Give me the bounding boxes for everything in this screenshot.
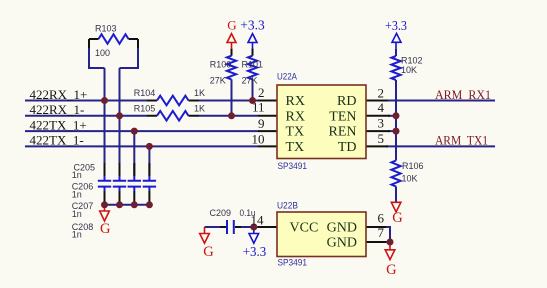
svg-text:1K: 1K bbox=[194, 104, 205, 114]
svg-text:VCC: VCC bbox=[290, 221, 319, 236]
svg-text:U22B: U22B bbox=[277, 201, 298, 212]
svg-text:GND: GND bbox=[327, 236, 357, 251]
svg-text:SP3491: SP3491 bbox=[278, 161, 308, 172]
svg-text:2: 2 bbox=[258, 85, 265, 100]
svg-text:R103: R103 bbox=[95, 23, 117, 33]
svg-text:SP3491: SP3491 bbox=[278, 257, 308, 268]
svg-text:ARM_RX1: ARM_RX1 bbox=[435, 87, 491, 102]
svg-text:11: 11 bbox=[252, 100, 265, 115]
svg-text:ARM_TX1: ARM_TX1 bbox=[435, 133, 488, 148]
svg-text:9: 9 bbox=[258, 116, 265, 131]
svg-text:R100: R100 bbox=[210, 60, 232, 70]
svg-text:G: G bbox=[227, 18, 236, 33]
svg-text:6: 6 bbox=[378, 210, 385, 225]
svg-text:1n: 1n bbox=[72, 190, 82, 200]
svg-text:RX: RX bbox=[286, 109, 305, 124]
svg-text:+3.3: +3.3 bbox=[240, 19, 264, 34]
svg-text:TD: TD bbox=[338, 140, 357, 155]
svg-text:GND: GND bbox=[327, 221, 357, 236]
svg-text:U22A: U22A bbox=[277, 72, 298, 83]
svg-text:3: 3 bbox=[378, 115, 385, 130]
svg-text:R101: R101 bbox=[242, 60, 264, 70]
svg-text:4: 4 bbox=[378, 100, 385, 115]
svg-text:REN: REN bbox=[329, 125, 357, 140]
svg-text:RX: RX bbox=[286, 94, 305, 109]
svg-text:7: 7 bbox=[378, 225, 385, 240]
svg-text:+3.3: +3.3 bbox=[243, 245, 267, 260]
svg-text:10: 10 bbox=[252, 132, 265, 147]
svg-text:R105: R105 bbox=[134, 104, 156, 114]
svg-text:422TX_1-: 422TX_1- bbox=[30, 133, 84, 148]
svg-text:G: G bbox=[100, 221, 111, 237]
svg-text:2: 2 bbox=[378, 85, 385, 100]
svg-text:1K: 1K bbox=[194, 88, 205, 98]
svg-text:10K: 10K bbox=[401, 65, 417, 75]
svg-text:422RX_1+: 422RX_1+ bbox=[30, 87, 88, 102]
svg-text:C209: C209 bbox=[210, 208, 232, 218]
svg-text:100: 100 bbox=[95, 48, 110, 58]
svg-text:5: 5 bbox=[378, 131, 385, 146]
svg-text:R102: R102 bbox=[401, 55, 423, 65]
svg-text:G: G bbox=[386, 262, 397, 278]
svg-text:422RX_1-: 422RX_1- bbox=[30, 102, 85, 117]
svg-text:R104: R104 bbox=[134, 88, 156, 98]
svg-text:G: G bbox=[392, 210, 403, 226]
svg-text:27K: 27K bbox=[210, 76, 226, 86]
svg-text:1n: 1n bbox=[72, 230, 82, 240]
svg-text:+3.3: +3.3 bbox=[385, 19, 407, 34]
svg-text:TX: TX bbox=[286, 140, 305, 155]
svg-text:27K: 27K bbox=[242, 76, 258, 86]
svg-text:422TX_1+: 422TX_1+ bbox=[30, 117, 87, 132]
svg-text:TX: TX bbox=[286, 125, 305, 140]
svg-text:G: G bbox=[203, 244, 214, 260]
svg-text:R106: R106 bbox=[402, 161, 424, 171]
svg-text:RD: RD bbox=[337, 94, 356, 109]
svg-text:TEN: TEN bbox=[329, 109, 356, 124]
svg-text:0.1u: 0.1u bbox=[240, 208, 256, 218]
svg-text:1n: 1n bbox=[72, 170, 82, 180]
svg-text:10K: 10K bbox=[402, 173, 418, 183]
svg-text:1n: 1n bbox=[72, 209, 82, 219]
